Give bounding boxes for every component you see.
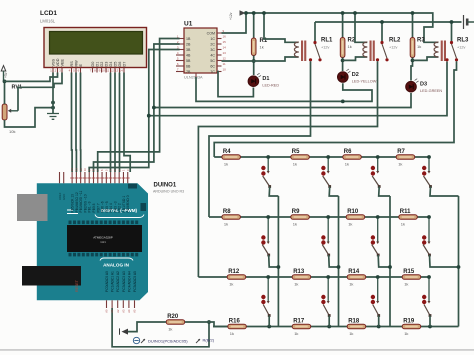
svg-text:2C: 2C xyxy=(210,43,215,47)
junction column 1 jog2 xyxy=(277,265,281,269)
svg-text:1k: 1k xyxy=(404,331,408,336)
LCD LM016L body xyxy=(44,28,147,68)
svg-text:ULN2003A: ULN2003A xyxy=(184,76,203,80)
battery B1 xyxy=(464,15,474,29)
junction ground net B xyxy=(51,101,55,105)
svg-text:R10: R10 xyxy=(347,209,359,215)
button keypad row1 col4 xyxy=(422,157,432,188)
LED D1 xyxy=(248,73,279,87)
power rail battery lower xyxy=(314,22,316,41)
Arduino DIGITAL label xyxy=(67,208,144,218)
Arduino ATMEGA328P IC xyxy=(67,221,142,257)
svg-text:D2: D2 xyxy=(100,62,104,67)
svg-text:ANALOG IN: ANALOG IN xyxy=(103,263,129,268)
resistor R2 xyxy=(340,38,356,58)
svg-text:10k: 10k xyxy=(9,129,15,134)
button keypad row2 col4 xyxy=(422,217,431,256)
svg-text:6C: 6C xyxy=(210,65,215,69)
svg-text:5B: 5B xyxy=(186,59,191,63)
wire rail to relay RL1 coil xyxy=(264,13,299,42)
svg-text:VEE: VEE xyxy=(61,58,65,66)
svg-text:ATMEGA328P: ATMEGA328P xyxy=(93,236,112,240)
wire RV1 bottom to ground net xyxy=(5,108,54,127)
svg-text:A3: A3 xyxy=(121,309,125,313)
svg-text:10: 10 xyxy=(223,68,227,72)
LED D3 xyxy=(406,79,443,93)
wire LCD E down xyxy=(80,73,82,173)
svg-text:R8: R8 xyxy=(223,209,231,215)
wire button row2 col2 to column xyxy=(329,255,339,267)
wire button row3 col3 to row 4 xyxy=(378,316,380,327)
junction rail coil1 xyxy=(262,11,266,15)
svg-text:2B: 2B xyxy=(186,43,191,47)
svg-text:3C: 3C xyxy=(210,48,215,52)
svg-text:A5: A5 xyxy=(133,309,137,313)
junction D3 return to bus xyxy=(152,106,156,110)
svg-text:D7: D7 xyxy=(123,62,127,67)
wire R3 to D3 xyxy=(411,58,413,81)
svg-text:1k: 1k xyxy=(224,161,228,166)
wire keypad row 3 xyxy=(198,276,429,278)
svg-text:A2: A2 xyxy=(116,309,120,313)
relay RL1 contact switch xyxy=(309,41,322,62)
junction row2 col2 xyxy=(326,215,330,219)
svg-text:+12v: +12v xyxy=(321,46,329,50)
svg-text:+12v: +12v xyxy=(457,46,465,50)
svg-text:D4: D4 xyxy=(109,62,113,67)
svg-text:R4: R4 xyxy=(223,149,231,155)
svg-text:U1: U1 xyxy=(184,21,193,28)
svg-text:A4: A4 xyxy=(127,309,131,313)
svg-text:11: 11 xyxy=(106,69,109,73)
junction rail R3 xyxy=(411,11,415,15)
wire +5v to LCD VDD xyxy=(4,73,58,82)
power +5v terminal xyxy=(1,66,6,72)
wire R20 right lead xyxy=(185,321,209,323)
wire LCD D7 down xyxy=(124,73,130,173)
svg-text:R6: R6 xyxy=(344,149,352,155)
power +12v terminal xyxy=(240,10,246,16)
Arduino ICSP header xyxy=(128,184,146,212)
junction rail R1 xyxy=(252,11,256,15)
wire R2 to D2 xyxy=(342,58,344,72)
wire U1 3B to Arduino xyxy=(89,50,179,173)
svg-text:1k: 1k xyxy=(398,161,402,166)
svg-text:11: 11 xyxy=(223,62,226,66)
button keypad row1 col2 xyxy=(321,157,331,188)
svg-text:VDD: VDD xyxy=(56,58,60,66)
svg-text:+12v: +12v xyxy=(389,46,397,50)
wire keypad row 1 xyxy=(214,156,429,158)
svg-text:1k: 1k xyxy=(294,281,298,286)
svg-text:LM016L: LM016L xyxy=(40,19,56,24)
RV1 top lead xyxy=(4,81,6,104)
Arduino analog pin stubs xyxy=(105,271,137,313)
junction R2-D2 coil tap xyxy=(341,59,345,63)
svg-text:6B: 6B xyxy=(186,65,191,69)
wire button row1 col4 to column xyxy=(430,187,459,197)
wire LCD RW down xyxy=(75,73,77,173)
svg-text:R7: R7 xyxy=(397,149,405,155)
wire button row2 col4 to column xyxy=(430,255,459,267)
svg-text:1k: 1k xyxy=(348,44,352,49)
svg-text:7B: 7B xyxy=(186,70,191,74)
wire D1 return to U1 7C xyxy=(217,72,253,97)
LCD pins xyxy=(50,58,127,72)
svg-text:PC3/ADC3 A3: PC3/ADC3 A3 xyxy=(122,271,126,292)
svg-text:1k: 1k xyxy=(293,221,297,226)
button keypad row2 col2 xyxy=(321,217,330,256)
svg-text:D5: D5 xyxy=(114,62,118,67)
svg-text:PC1/ADC1 A1: PC1/ADC1 A1 xyxy=(111,271,115,292)
svg-text:R12: R12 xyxy=(228,269,240,275)
junction rail R2 xyxy=(341,11,345,15)
svg-text:R13: R13 xyxy=(293,269,305,275)
junction ground net A xyxy=(51,106,55,110)
svg-text:+12v: +12v xyxy=(229,12,233,20)
svg-text:1k: 1k xyxy=(417,44,421,49)
wire U1 1B to Arduino xyxy=(98,39,180,173)
svg-text:R14: R14 xyxy=(348,269,360,275)
resistor R17 xyxy=(292,318,311,336)
svg-text:R19: R19 xyxy=(403,318,415,324)
resistor R20 xyxy=(166,314,185,332)
svg-text:LCD1: LCD1 xyxy=(40,10,57,17)
resistor R13 xyxy=(292,269,311,287)
resistor R14 xyxy=(347,269,366,287)
svg-text:1121: 1121 xyxy=(100,240,106,244)
svg-text:13: 13 xyxy=(223,51,227,55)
wire button row2 col3 to column xyxy=(378,255,390,267)
svg-text:RL3: RL3 xyxy=(457,38,469,44)
wire button row3 col1 to row 4 xyxy=(268,316,270,327)
wire RL1 switch to keypad row2 feed xyxy=(209,61,311,217)
junction column 4 jog2 xyxy=(457,265,461,269)
wire button row1 col1 to column xyxy=(269,187,278,197)
wire rail to RL2 switch xyxy=(381,22,383,41)
svg-text:R20: R20 xyxy=(167,314,179,320)
RV1 wiper arrow xyxy=(8,109,11,113)
wire keypad column 1 xyxy=(277,196,279,327)
wire RL3 left contact long xyxy=(149,62,447,116)
wire rail to R2 xyxy=(342,13,344,38)
button keypad row1 col3 xyxy=(371,157,381,188)
wire rail to R1 xyxy=(253,13,255,38)
button keypad row1 col1 xyxy=(261,157,271,188)
svg-text:1k: 1k xyxy=(294,331,298,336)
svg-text:1k: 1k xyxy=(224,221,228,226)
junction row4 col2 xyxy=(327,325,331,329)
relay RL1 xyxy=(294,41,306,62)
Arduino DUINO1 board xyxy=(37,183,148,300)
svg-text:DUINO1: DUINO1 xyxy=(154,183,177,189)
junction rail coil2 xyxy=(353,11,357,15)
wire rail to R3 xyxy=(412,13,414,38)
junction row2 col3 xyxy=(376,215,380,219)
junction row3 col2 xyxy=(326,275,330,279)
svg-text:PC0/ADC0 A0: PC0/ADC0 A0 xyxy=(105,271,109,292)
svg-text:D1: D1 xyxy=(262,76,269,82)
wire RL1 coil bottom to U1 5C xyxy=(222,57,299,61)
wire node to R16 xyxy=(209,322,227,327)
button keypad row3 col2 xyxy=(321,277,330,317)
junction row1 col2 xyxy=(326,155,330,159)
svg-text:+5v: +5v xyxy=(4,72,8,78)
svg-text:4B: 4B xyxy=(186,54,191,58)
junction row2 col1 xyxy=(266,215,270,219)
svg-text:14: 14 xyxy=(223,46,227,50)
wire LCD D5 down xyxy=(114,73,116,173)
svg-text:1k: 1k xyxy=(229,281,233,286)
junction R20 node xyxy=(207,320,211,324)
svg-text:DUINO1(PC6/ADC05): DUINO1(PC6/ADC05) xyxy=(148,339,188,344)
resistor R5 xyxy=(291,149,310,167)
svg-text:LED-GREEN: LED-GREEN xyxy=(420,89,442,93)
wire D3 return long xyxy=(154,93,411,108)
svg-text:R(B/2): R(B/2) xyxy=(203,338,215,343)
junction row1 col4 xyxy=(427,155,431,159)
svg-text:PC4/ADC4 A4: PC4/ADC4 A4 xyxy=(127,271,131,292)
resistor R4 xyxy=(222,149,241,167)
svg-text:1k: 1k xyxy=(349,331,353,336)
resistor R16 xyxy=(228,318,247,336)
svg-text:3B: 3B xyxy=(186,48,191,52)
svg-text:R9: R9 xyxy=(292,209,300,215)
svg-text:1k: 1k xyxy=(260,45,264,50)
svg-text:R18: R18 xyxy=(348,318,360,324)
junction RL3 contact to bus xyxy=(147,114,151,118)
junction D2 return xyxy=(341,100,345,104)
svg-text:D3: D3 xyxy=(420,82,427,88)
input terminal arrow xyxy=(122,329,129,335)
svg-text:R15: R15 xyxy=(403,269,415,275)
resistor R1 xyxy=(251,38,267,56)
wire RL3 coil bottom to R3 node xyxy=(413,57,439,60)
resistor R12 xyxy=(227,269,246,287)
resistor R9 xyxy=(291,209,310,227)
Arduino USB connector xyxy=(17,194,48,221)
Arduino power jack xyxy=(22,266,81,286)
svg-text:1B: 1B xyxy=(186,37,191,41)
wire D2 return xyxy=(196,77,372,101)
wire button row1 col2 to column xyxy=(329,187,338,197)
power rail +12v upper xyxy=(245,13,438,42)
svg-text:RW: RW xyxy=(75,60,79,67)
svg-text:PC2/ADC2 A2: PC2/ADC2 A2 xyxy=(116,271,120,292)
svg-text:1k: 1k xyxy=(293,161,297,166)
svg-text:R16: R16 xyxy=(229,318,241,324)
junction column 3 jog2 xyxy=(388,265,392,269)
button keypad row3 col1 xyxy=(261,277,270,317)
junction row3 col1 xyxy=(266,275,270,279)
resistor R10 xyxy=(346,209,365,227)
svg-text:COM: COM xyxy=(207,32,215,36)
relay RL2 xyxy=(363,41,375,62)
svg-text:4C: 4C xyxy=(210,54,215,58)
junction row4 col1 xyxy=(267,325,271,329)
U1 left pins 1B-7B xyxy=(176,35,191,74)
svg-text:12: 12 xyxy=(223,57,227,61)
svg-text:R17: R17 xyxy=(293,318,305,324)
wire keypad column 2 xyxy=(338,196,340,327)
wire RL2 coil bottom to R2 node xyxy=(343,57,368,60)
junction lower rail sw3 xyxy=(450,20,454,24)
svg-text:13: 13 xyxy=(115,69,119,73)
relay RL3 xyxy=(434,41,446,62)
wire keypad row 2 xyxy=(209,216,429,218)
junction row1 col3 xyxy=(376,155,380,159)
resistor R6 xyxy=(343,149,362,167)
wire U1 COM to rail xyxy=(222,13,247,33)
junction row3 col4 xyxy=(427,275,431,279)
svg-text:15: 15 xyxy=(223,40,227,44)
wire button row3 col4 to row 4 xyxy=(429,316,431,327)
svg-text:16: 16 xyxy=(223,35,227,39)
svg-text:D0: D0 xyxy=(91,62,95,67)
svg-text:ARDUINO UNO R3: ARDUINO UNO R3 xyxy=(153,190,184,194)
junction R1-D1 coil tap xyxy=(252,59,256,63)
wire LCD D4 down xyxy=(110,73,112,173)
svg-text:7C: 7C xyxy=(210,70,215,74)
svg-text:12: 12 xyxy=(110,69,114,73)
wire keypad column 4 xyxy=(458,196,460,327)
wire button row1 col3 to column xyxy=(379,187,390,197)
wire button row3 col2 to row 4 xyxy=(328,316,330,327)
svg-text:1k: 1k xyxy=(404,281,408,286)
wire RL2 switch to keypad row3 feed xyxy=(198,61,377,277)
junction R3-D3 coil tap xyxy=(411,59,415,63)
wire keypad column 3 xyxy=(389,196,391,327)
wire RL3 switch to keypad row1 feed xyxy=(214,61,456,157)
wire U1 2B to Arduino xyxy=(94,44,180,172)
relay RL3 contact switch xyxy=(445,41,458,62)
potentiometer RV1 body xyxy=(2,104,7,120)
U1 ULN2003A body xyxy=(184,28,217,73)
junction column 2 jog2 xyxy=(337,265,341,269)
wire button row2 col1 to column xyxy=(269,255,279,267)
svg-text:PC5/ADC5 A5: PC5/ADC5 A5 xyxy=(133,271,137,292)
junction row4 col4 xyxy=(428,325,432,329)
U1 pin 8 GND stub xyxy=(195,73,197,77)
svg-text:1k: 1k xyxy=(401,221,405,226)
wire wiper to LCD VEE xyxy=(18,73,62,111)
resistor R7 xyxy=(396,149,415,167)
junction row4 col3 xyxy=(377,325,381,329)
junction rail COM xyxy=(244,11,248,15)
svg-text:1C: 1C xyxy=(210,37,215,41)
svg-text:R5: R5 xyxy=(292,149,300,155)
svg-text:RS: RS xyxy=(70,61,74,67)
wire LCD RS down xyxy=(71,73,74,173)
svg-text:GND: GND xyxy=(62,194,66,200)
svg-text:RESET: RESET xyxy=(75,279,79,292)
resistor R19 xyxy=(402,318,421,336)
junction row2 col4 xyxy=(427,215,431,219)
probe marker DUINO1 xyxy=(133,337,188,343)
svg-text:D3: D3 xyxy=(105,62,109,67)
svg-text:1k: 1k xyxy=(349,281,353,286)
wire keypad row 4 xyxy=(213,326,459,328)
svg-text:1k: 1k xyxy=(348,221,352,226)
svg-text:R11: R11 xyxy=(400,209,411,215)
button keypad row3 col4 xyxy=(422,277,431,317)
svg-text:LED-YELLOW: LED-YELLOW xyxy=(352,80,377,84)
svg-text:1k: 1k xyxy=(168,326,172,331)
junction row3 col3 xyxy=(376,275,380,279)
svg-text:D1: D1 xyxy=(96,62,100,67)
svg-text:14: 14 xyxy=(119,69,123,73)
resistor R11 xyxy=(399,209,418,227)
wire lower rail xyxy=(315,21,462,23)
probe marker R(B/2) xyxy=(196,338,215,344)
svg-text:PD0/RXD 0: PD0/RXD 0 xyxy=(126,195,130,212)
svg-text:D2: D2 xyxy=(352,72,359,78)
button keypad row2 col3 xyxy=(371,217,380,256)
svg-text:A1: A1 xyxy=(110,309,114,313)
relay RL2 contact switch xyxy=(376,41,389,62)
LCD screen xyxy=(50,32,143,55)
wire rail to relay RL2 coil xyxy=(355,13,367,42)
wire LCD D6 down xyxy=(119,73,121,173)
LED D2 xyxy=(338,69,377,84)
resistor R8 xyxy=(222,209,241,227)
wire R1 to D1 xyxy=(253,56,255,76)
svg-text:1k: 1k xyxy=(345,161,349,166)
svg-text:A0: A0 xyxy=(105,309,109,313)
svg-text:RL2: RL2 xyxy=(389,38,401,44)
wire rail to RL3 switch xyxy=(451,22,453,41)
junction row1 col1 xyxy=(266,155,270,159)
junction lower rail sw2 xyxy=(380,20,384,24)
wire Arduino A0 down xyxy=(112,308,209,347)
junction +5/RV1 xyxy=(3,80,7,84)
resistor R3 xyxy=(410,38,425,58)
window artifact line xyxy=(0,349,474,351)
svg-text:1k: 1k xyxy=(230,331,234,336)
button keypad row3 col3 xyxy=(371,277,380,317)
svg-text:RL1: RL1 xyxy=(321,38,333,44)
svg-text:10: 10 xyxy=(101,69,105,73)
wire R20 to input terminal xyxy=(128,322,166,332)
Arduino ANALOG IN label xyxy=(100,258,133,268)
svg-text:5C: 5C xyxy=(210,59,215,63)
wire LCD VSS down xyxy=(52,73,54,114)
button keypad row2 col1 xyxy=(261,217,270,256)
svg-text:R3: R3 xyxy=(417,38,425,44)
resistor R18 xyxy=(347,318,366,336)
svg-text:LED-RED: LED-RED xyxy=(262,84,279,88)
U1 right pins COM 1C-7C xyxy=(207,29,227,74)
ground xyxy=(47,114,59,120)
Arduino digital pin stubs xyxy=(58,168,130,213)
svg-text:D6: D6 xyxy=(118,62,122,67)
resistor R15 xyxy=(402,269,421,287)
svg-text:VSS: VSS xyxy=(52,58,56,66)
